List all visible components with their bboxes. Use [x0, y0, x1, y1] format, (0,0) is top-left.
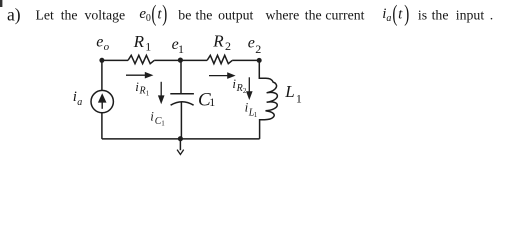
svg-text:e: e	[248, 35, 255, 52]
svg-text:R: R	[236, 83, 243, 94]
svg-text:L: L	[284, 82, 294, 101]
circuit label R1	[133, 32, 152, 54]
capacitor C1 top plate	[170, 93, 194, 95]
svg-text:(: (	[392, 2, 397, 27]
wire bottom	[102, 138, 260, 140]
circuit label e2	[248, 35, 262, 57]
svg-text:a: a	[77, 97, 82, 108]
source arrow stem	[101, 102, 103, 109]
svg-text:a: a	[386, 13, 391, 24]
circuit label eo	[96, 33, 109, 53]
svg-text:1: 1	[178, 42, 184, 56]
wire capacitor branch upper	[180, 60, 182, 93]
svg-text:t: t	[398, 6, 403, 22]
wire R1 to R2 (through node e1)	[154, 59, 207, 61]
svg-text:i: i	[150, 109, 154, 124]
svg-text:1: 1	[146, 89, 150, 97]
svg-text:the: the	[305, 7, 322, 22]
label iR1	[135, 79, 150, 98]
svg-text:a): a)	[7, 5, 21, 25]
svg-text:1: 1	[296, 92, 302, 106]
circuit label e1	[172, 36, 184, 56]
wire left branch upper	[101, 60, 103, 90]
svg-text:2: 2	[225, 39, 231, 53]
svg-text:the: the	[196, 7, 213, 22]
arrow iR1	[126, 74, 146, 76]
svg-text:is: is	[418, 7, 427, 22]
svg-text:1: 1	[209, 95, 215, 109]
node e1	[178, 58, 183, 63]
svg-text:): )	[162, 2, 167, 27]
svg-text:voltage: voltage	[85, 7, 126, 22]
wire capacitor branch lower	[180, 102, 182, 139]
svg-text:current: current	[325, 7, 364, 22]
wire top left (eo to R1)	[102, 59, 128, 61]
wire R2 to e2	[232, 59, 259, 61]
svg-text:2: 2	[255, 42, 261, 56]
svg-text:o: o	[104, 41, 110, 53]
circuit label L1	[284, 82, 302, 105]
svg-text:be: be	[178, 7, 191, 22]
svg-text:1: 1	[161, 120, 165, 128]
svg-text:Let: Let	[36, 7, 55, 22]
svg-text:2: 2	[243, 87, 247, 95]
arrow iL1	[248, 77, 250, 92]
arrow iC1	[160, 82, 162, 97]
inductor L1 with leads	[259, 60, 277, 138]
head arrow iC1	[158, 95, 165, 104]
label ia	[73, 89, 82, 108]
ground stem	[179, 139, 181, 150]
svg-text:R: R	[133, 32, 145, 51]
svg-text:R: R	[212, 31, 224, 50]
svg-text:0: 0	[146, 13, 151, 24]
label iR2	[232, 76, 247, 95]
svg-text:.: .	[490, 7, 493, 22]
arrow iR2	[209, 75, 229, 77]
node e2	[257, 58, 262, 63]
resistor R1	[128, 55, 154, 63]
svg-text:): )	[404, 2, 409, 27]
resistor R2	[207, 55, 232, 63]
current source circle ia	[91, 90, 113, 112]
circuit label R2	[212, 31, 231, 53]
label iL1	[245, 100, 258, 120]
svg-text:input: input	[456, 7, 485, 22]
label iC1	[150, 109, 165, 128]
head arrow iL1	[246, 91, 253, 100]
svg-text:(: (	[151, 2, 156, 27]
node eo	[99, 58, 104, 63]
source arrow head	[98, 93, 107, 102]
svg-text:1: 1	[145, 40, 151, 54]
svg-text:R: R	[139, 85, 146, 96]
math e0(t)	[139, 2, 167, 27]
head arrow iR1	[145, 72, 154, 79]
node bottom junction	[178, 136, 183, 141]
math ia(t)	[382, 2, 409, 27]
stray mark top-left edge	[0, 0, 2, 7]
sentence text	[7, 5, 493, 25]
ground arrowhead (open)	[177, 150, 184, 155]
svg-text:the: the	[61, 7, 78, 22]
svg-text:the: the	[432, 7, 449, 22]
svg-text:1: 1	[254, 111, 258, 119]
capacitor C1 curved plate	[171, 102, 194, 106]
wire left branch lower	[101, 113, 103, 139]
circuit label C1	[198, 90, 215, 111]
svg-text:e: e	[96, 33, 103, 50]
svg-text:output: output	[218, 7, 253, 22]
svg-text:where: where	[266, 7, 300, 22]
head arrow iR2	[227, 72, 235, 79]
